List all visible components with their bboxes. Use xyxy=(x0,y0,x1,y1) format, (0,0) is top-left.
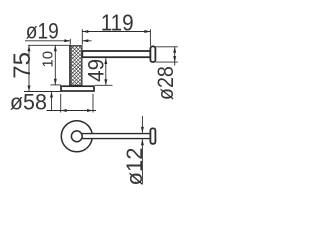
dim 75 line xyxy=(28,45,30,91)
svg-text:ø58: ø58 xyxy=(10,89,47,114)
dim ø19 leader xyxy=(25,40,70,42)
ext line post-top (left) xyxy=(28,44,71,46)
dim ø12 line upper xyxy=(141,116,143,133)
dim 10 lower arrow at wall face xyxy=(51,92,53,111)
dim ø12 line lower xyxy=(141,139,143,184)
svg-text:ø28: ø28 xyxy=(153,66,178,100)
ext line cap-bottom right xyxy=(156,61,178,63)
svg-text:75: 75 xyxy=(9,52,36,79)
bottom view bar xyxy=(79,134,150,139)
wall plate (side view, rosette) xyxy=(61,86,94,91)
svg-text:ø19: ø19 xyxy=(26,19,59,44)
svg-text:49: 49 xyxy=(84,59,109,82)
ext line post-right up xyxy=(81,29,83,45)
ext line plate-top right xyxy=(95,84,113,86)
svg-text:ø12: ø12 xyxy=(122,148,147,186)
dim 49 line xyxy=(105,58,107,85)
post left edge line xyxy=(69,45,71,85)
bottom view end cap xyxy=(150,128,155,143)
dim ø19 right arrow xyxy=(82,40,91,42)
ext line wall face (left) xyxy=(24,91,61,93)
ext line ø58 left xyxy=(60,94,62,113)
bottom view post circle xyxy=(71,131,82,142)
ext line cap-top right xyxy=(156,46,178,48)
ext line cap-right up xyxy=(149,29,151,46)
dim 119 line xyxy=(82,31,150,33)
dim 10 upper line xyxy=(54,45,56,84)
dim ø58 line xyxy=(47,110,97,112)
dim ø28 line xyxy=(174,47,176,66)
end cap (side view) xyxy=(150,46,155,62)
ext line post-left up xyxy=(69,39,71,45)
post / collar (hatched) xyxy=(71,46,82,86)
ext line plate-top left xyxy=(51,84,61,86)
bar (side view rod) xyxy=(82,51,150,57)
bottom view rosette circle xyxy=(61,121,92,152)
ext line ø58 right xyxy=(92,94,94,113)
svg-text:10: 10 xyxy=(40,51,57,68)
